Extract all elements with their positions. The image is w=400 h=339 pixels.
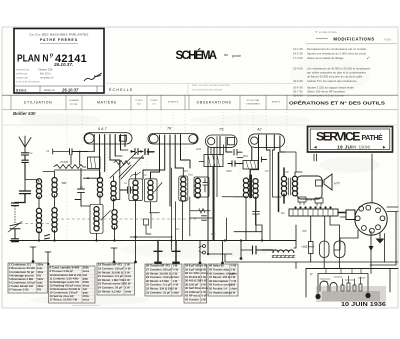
svg-text:►: ► [382,145,387,150]
svg-text:1 W: 1 W [125,278,130,282]
filter choke [262,250,294,253]
diagonal routing under 6A7 [110,152,143,179]
IF2 transformer [249,175,252,199]
svg-text:6 A 7: 6 A 7 [98,127,107,131]
svg-text:PATHÉ FRÈRES: PATHÉ FRÈRES [40,37,78,42]
svg-text:½ W: ½ W [172,283,178,287]
svg-text:calqué par: calqué par [16,75,28,79]
svg-text:2 W: 2 W [125,270,130,274]
svg-text:26.10.37: 26.10.37 [61,88,79,93]
svg-text:bob.: bob. [37,280,43,284]
ground right of socket [379,233,381,238]
socket pins [355,205,385,233]
svg-text:38 400 Ω 3W: 38 400 Ω 3W [185,279,202,283]
svg-text:22 Résist. 1 MΩ ½W: 22 Résist. 1 MΩ ½W [98,278,124,282]
L3 lower coil [94,207,99,231]
svg-text:2 W: 2 W [172,271,177,275]
svg-text:24-5-36: 24-5-36 [293,79,303,83]
svg-text:36 0,1 400v: 36 0,1 400v [185,271,200,275]
small zigzag r3 [114,161,130,169]
svg-text:10 Résistance 300 Ω 1W: 10 Résistance 300 Ω 1W [50,273,82,277]
faint dash under T2 [72,305,100,307]
L3 top link [84,172,101,178]
svg-text:50 Fusible 1 A: 50 Fusible 1 A [209,287,227,291]
svg-text:Cadran P.O. les valeurs des ré: Cadran P.O. les valeurs des résistances [307,79,357,83]
L1 stubs [38,196,40,241]
title block box [14,29,104,94]
svg-text:POIDS: POIDS [136,100,143,102]
speaker frame [297,176,322,199]
svg-text:75: 75 [219,127,224,132]
tube 78 envelope [148,134,198,145]
svg-text:0,05: 0,05 [196,147,202,151]
grid resistor box 75 [204,155,223,167]
svg-text:7 Cadre blindé GO: 7 Cadre blindé GO [9,284,34,288]
IF1 coil A [133,180,138,200]
grid box right [88,157,101,169]
svg-text:10 JUIN 1936: 10 JUIN 1936 [341,302,386,308]
svg-text:0,1: 0,1 [29,151,33,155]
svg-text:34 8 μF 500v: 34 8 μF 500v [185,264,202,268]
tube 42 [249,134,285,148]
75 pin wires [208,137,226,255]
svg-text:PATHÉ: PATHÉ [362,133,384,142]
svg-text:de liaison 50.000 est porté au: de liaison 50.000 est porté au circuit d… [307,75,363,79]
osc coil A [181,177,186,201]
socket bottom wire + arrow [370,231,372,247]
main header band [2,94,398,96]
svg-text:17-3-36: 17-3-36 [293,56,303,60]
svg-text:NOMBRE: NOMBRE [69,100,79,102]
svg-text:2 W: 2 W [230,283,235,287]
svg-text:8 Trimmer 3-30: 8 Trimmer 3-30 [9,288,29,292]
svg-text:mica: mica [83,298,90,302]
small socket pads [298,197,306,205]
svg-text:500v: 500v [37,263,44,267]
can feeds [324,216,339,269]
svg-text:40 Self filtre: 40 Self filtre [185,286,201,290]
sector wires left [295,262,297,269]
tube socket circle [355,203,387,235]
svg-text:1 W: 1 W [172,279,177,283]
svg-text:45 Transfo alim.: 45 Transfo alim. [209,268,230,272]
socket left-bottom routing [334,230,358,250]
coil L2 upper [52,178,57,198]
svg-text:½ W: ½ W [201,294,207,298]
socket right wires [370,207,398,265]
svg-text:par app.: par app. [70,103,78,106]
rectifier can 1 [320,241,330,258]
parts table T3 [97,263,135,295]
svg-text:POIDS: POIDS [151,100,158,102]
svg-text:1 W: 1 W [230,290,235,294]
grid resistor box 42 [243,161,258,170]
svg-text:1 W: 1 W [125,263,130,267]
svg-text:450v: 450v [37,270,44,274]
svg-text:Boîtier 530: Boîtier 530 [13,111,36,116]
svg-text:31 Condens. 0,1 μF: 31 Condens. 0,1 μF [146,283,171,287]
svg-text:2MΩ: 2MΩ [225,169,232,173]
voice coil [316,180,323,186]
smudge [316,286,386,302]
wire antenna to L1 [25,180,39,183]
svg-text:17 Résist. 10.000 ½W: 17 Résist. 10.000 ½W [50,298,78,302]
right resistor vertical [309,242,314,254]
L3 shield box lower [90,204,103,233]
svg-text:H P: H P [334,182,340,186]
twin trimmer caps [120,187,135,193]
vertical x119.8 [119,168,121,200]
svg-text:TR: TR [285,170,289,174]
cathode cap 42 [259,157,267,162]
svg-text:net: net [152,103,155,106]
svg-text:15 Condensat. 100 pF: 15 Condensat. 100 pF [50,291,79,295]
svg-text:½ W: ½ W [125,267,131,271]
svg-text:12-1-36: 12-1-36 [293,47,303,51]
svg-text:24 Condens. 50 pF: 24 Condens. 50 pF [98,286,123,290]
svg-text:350: 350 [302,229,307,233]
svg-text:sont données à titre indicatif: sont données à titre indicatif [192,89,222,92]
svg-text:4 Bobinage accord: 4 Bobinage accord [9,273,34,277]
svg-text:SYMBOLE: SYMBOLE [168,102,179,104]
svg-text:MF2: MF2 [243,154,249,158]
tube 6A7 envelope [84,133,132,144]
cap x81 [75,169,85,207]
svg-text:dessiné par: dessiné par [16,68,30,72]
heater resistors [341,283,362,291]
svg-text:25.000: 25.000 [59,160,68,164]
svg-text:Nota : les cotes du plan d'ens: Nota : les cotes du plan d'ensemble [192,84,230,87]
aging blotches [20,57,380,305]
winding humps [320,281,337,291]
parts table T6 [208,264,238,296]
cap before choke [253,246,263,254]
svg-text:26.10.37.: 26.10.37. [53,62,73,67]
IF2 stubs [246,170,262,241]
IF1 trimmer arrow [155,183,162,192]
svg-text:21 Condens. 0,1 μF: 21 Condens. 0,1 μF [98,274,123,278]
svg-text:Dates le: Dates le [44,88,55,92]
svg-text:2 W: 2 W [201,297,206,301]
RF line y151.5 [53,149,69,154]
small faint rows [16,68,54,84]
svg-text:25 Résist. 0,5 MΩ: 25 Résist. 0,5 MΩ [98,289,121,293]
svg-text:39 0,05 μF: 39 0,05 μF [185,282,199,286]
dotted drop [14,206,16,223]
svg-text:1 Condensat. 0,1: 1 Condensat. 0,1 [9,263,31,267]
line y170 [54,169,100,171]
resistor zigzag [54,165,86,169]
L4 stubs [114,176,115,241]
svg-text:bob.: bob. [37,266,43,270]
svg-text:2 W: 2 W [201,282,206,286]
parts table T2 [49,266,96,303]
svg-text:SCHÉMA: SCHÉMA [176,49,218,62]
svg-text:UTILISATION: UTILISATION [24,101,53,105]
svg-text:mica: mica [83,269,90,273]
svg-text:chim: chim [230,271,237,275]
svg-text:41 0,002 μF: 41 0,002 μF [185,290,200,294]
svg-text:19 Condens. 100 pF: 19 Condens. 100 pF [98,267,124,271]
78 pins [143,135,190,207]
svg-text:33 Condens. 25 μF: 33 Condens. 25 μF [146,290,171,294]
osc trimmer [203,179,207,193]
svg-text:chim: chim [125,274,132,278]
power block top rails [306,268,398,270]
svg-text:Remplacement du condensateur p: Remplacement du condensateur par un modè… [307,47,367,51]
svg-text:21-4-36: 21-4-36 [293,67,303,71]
misc value labels [46,147,307,236]
svg-text:+HS: +HS [301,245,308,249]
small zigzag under 78 [130,172,140,177]
IF1 shield box A [129,179,143,201]
oscillator shield box 2 [194,177,209,197]
svg-text:N° et date d'ordre: N° et date d'ordre [315,30,337,34]
svg-text:8 Cond. variable 3×490: 8 Cond. variable 3×490 [50,266,80,270]
coil L1 upper [36,179,41,199]
small cap to left [12,203,26,206]
mast continues down [24,180,26,191]
svg-text:C1: C1 [46,149,50,153]
svg-text:250v: 250v [83,280,90,284]
coil L2 lower [52,208,57,232]
antenna series capacitor 1 [22,153,29,160]
svg-text:chim: chim [230,287,237,291]
IF1 coil B [148,180,153,200]
svg-text:14 Résistance 50.000 Ω: 14 Résistance 50.000 Ω [50,287,81,291]
svg-text:30 Résist. 0,5 MΩ: 30 Résist. 0,5 MΩ [146,279,169,283]
svg-text:500v: 500v [37,277,44,281]
svg-text:13 Padding 425 pF mica: 13 Padding 425 pF mica [50,283,82,287]
svg-text:½ W: ½ W [201,279,207,283]
svg-text:OBSERVATIONS: OBSERVATIONS [197,101,232,105]
faint form row line [2,124,398,126]
svg-text:SÉRIE: SÉRIE [16,87,27,92]
misc short wires for density [62,152,296,237]
svg-text:43 Transfo: 43 Transfo [185,297,199,301]
svg-text:3 Condensat. 50 pF: 3 Condensat. 50 pF [9,270,35,274]
svg-text:RENVOI: RENVOI [272,102,281,104]
coil L4 lower [112,210,117,230]
osc coil B [195,178,200,198]
svg-text:42: 42 [257,127,262,132]
svg-text:450v: 450v [37,284,44,288]
variable cap with arrow [10,223,20,238]
svg-text:44 Valve 80: 44 Valve 80 [209,264,224,268]
svg-text:6m: 6m [281,211,286,215]
svg-text:chim: chim [125,289,132,293]
terminal strip [289,209,338,216]
svg-text:5 Résistance 2 MΩ: 5 Résistance 2 MΩ [9,277,34,281]
bus junction dots [38,236,263,255]
svg-text:MF1: MF1 [183,169,189,173]
svg-text:0,1: 0,1 [143,173,147,177]
svg-text:Ajouter une résistance de 2.00: Ajouter une résistance de 2.000 ohms au … [307,52,366,56]
svg-text:23 Potentiomètre 500: 23 Potentiomètre 500 [98,282,126,286]
svg-text:chim: chim [201,271,208,275]
svg-text:Bte 125 s: Bte 125 s [40,71,52,75]
svg-text:27 Condens. 250 pF: 27 Condens. 250 pF [146,268,172,272]
svg-text:32 Résist. 350 Ω 2W: 32 Résist. 350 Ω 2W [146,287,172,291]
svg-text:37 25.000 Ω: 37 25.000 Ω [185,275,201,279]
svg-text:N° DU PLAN: N° DU PLAN [247,99,260,102]
svg-text:brut: brut [137,103,141,106]
L4 trimmer arrow [101,211,111,221]
strip to socket wire [338,212,346,214]
svg-text:0,5: 0,5 [265,169,269,173]
svg-text:PLAN N: PLAN N [17,54,49,65]
svg-text:SERVICE: SERVICE [316,130,360,144]
drops to tables [33,237,241,265]
svg-text:1 W: 1 W [230,275,235,279]
coil L4 upper [111,181,116,201]
svg-text:19 JUIN 1936: 19 JUIN 1936 [337,144,370,150]
svg-text:chim: chim [201,286,208,290]
svg-text:18 Transfo MF 472: 18 Transfo MF 472 [98,263,122,267]
choke feed vertical [294,225,296,248]
bus tilted cap [45,235,50,240]
IF1 bottom network [150,213,160,229]
svg-text:mica: mica [83,283,90,287]
svg-text:0,1: 0,1 [176,227,180,231]
svg-text:6 Condensat. 150 pF: 6 Condensat. 150 pF [9,280,36,284]
svg-text:◄: ◄ [313,145,318,150]
svg-text:D'ENSEMBLE: D'ENSEMBLE [246,104,260,106]
long verticals to AVC [172,168,176,250]
svg-text:250v: 250v [83,266,90,270]
lower rail [208,254,398,262]
main bus [10,240,296,242]
svg-text:vérifié par: vérifié par [16,71,28,75]
svg-text:½ W: ½ W [201,264,207,268]
caps between tubes [132,149,143,155]
main bus left end [10,240,26,242]
osc bias network [190,197,212,236]
svg-text:Chassis 530: Chassis 530 [38,68,53,72]
big mast capacitor [20,191,31,203]
svg-text:51 Voyant cadran: 51 Voyant cadran [209,290,232,294]
svg-text:2 W: 2 W [172,287,177,291]
svg-text:11 Condens. 0,05 400v: 11 Condens. 0,05 400v [50,276,80,280]
svg-text:16 Self de choc HF: 16 Self de choc HF [50,294,75,298]
drop from cap [71,152,80,166]
parts table T5 [184,264,208,303]
svg-text:250v: 250v [83,294,90,298]
line y171.5 [43,171,55,173]
svg-text:✓: ✓ [366,56,370,61]
tube 75 [206,135,238,147]
svg-text:9 Trimmer 3-30 pF: 9 Trimmer 3-30 pF [50,269,74,273]
bus end cap [12,239,19,242]
svg-text:Osc: Osc [188,173,194,177]
signature scribble [84,73,102,81]
parts table T1 [8,263,48,293]
antenna [19,136,31,152]
speaker cone [324,174,332,190]
svg-text:2 W: 2 W [125,286,130,290]
transformer box outline [318,274,368,300]
svg-text:42 HP excit.: 42 HP excit. [185,294,201,298]
cap on RF line [70,149,89,155]
42 pin wires [252,135,285,170]
svg-text:chim: chim [172,290,179,294]
svg-text:½ W: ½ W [125,282,131,286]
svg-text:12 Bobinage oscill. PO: 12 Bobinage oscill. PO [50,280,81,284]
transformer stubs / thick feed [279,153,285,212]
L3 stubs [97,195,101,241]
oscillator shield box 1 [179,176,188,201]
svg-text:14-2-36: 14-2-36 [293,52,303,56]
svg-text:47 Résist. 150 Ω: 47 Résist. 150 Ω [209,275,231,279]
antenna series capacitor 2 [22,160,29,179]
electrolytic caps below bus [154,241,162,262]
svg-text:du: du [224,53,228,57]
svg-text:chim: chim [172,275,179,279]
svg-text:20 Résist. 25.000 Ω: 20 Résist. 25.000 Ω [98,270,124,274]
svg-text:poste: poste [232,54,241,58]
svg-text:28 Résist. 50.000 Ω: 28 Résist. 50.000 Ω [146,271,172,275]
svg-text:35 8 μF 500v: 35 8 μF 500v [185,267,202,271]
corner blobs [315,294,320,299]
svg-text:ÉCHELLE: ÉCHELLE [109,87,134,92]
rectifier can 2 [334,241,345,258]
faint band lines right of box [104,82,296,84]
faint form column rules [67,110,287,238]
svg-text:remplace le: remplace le [40,75,54,79]
svg-text:vu le chef du bureau: vu le chef du bureau [16,79,40,83]
svg-text:26 Transfo MF 472: 26 Transfo MF 472 [146,264,170,268]
svg-text:1 W: 1 W [201,290,206,294]
svg-text:8μF: 8μF [211,232,216,236]
svg-text:MATIÈRE: MATIÈRE [97,100,117,105]
svg-text:29 Condens. 0,02 μF: 29 Condens. 0,02 μF [146,275,173,279]
svg-text:Valeur de la cellule de filtra: Valeur de la cellule de filtrage [307,56,344,60]
svg-text:½ W: ½ W [230,264,236,268]
svg-text:48 Interrupteur: 48 Interrupteur [209,279,229,283]
coil L3 upper [97,178,102,198]
svg-text:2 Résistance 25.000: 2 Résistance 25.000 [9,266,35,270]
socket plug box [346,210,355,220]
osc stubs [181,168,184,241]
svg-text:1 W: 1 W [172,264,177,268]
svg-text:MODIFICATIONS: MODIFICATIONS [333,37,374,42]
coil L1 lower [36,208,41,232]
svg-text:2 W: 2 W [230,268,235,272]
svg-text:½ W: ½ W [230,279,236,283]
gang dashed line [20,219,196,224]
driver transformer [281,176,297,196]
wire under stamp [371,154,373,203]
svg-text:1 W: 1 W [201,275,206,279]
svg-text:2 W: 2 W [201,267,206,271]
coupling cap 42 [228,161,243,167]
IF1 stubs [136,172,151,237]
svg-text:½ W: ½ W [172,268,178,272]
svg-text:VISA: VISA [384,38,391,42]
parts table T4 [145,264,182,296]
6A7 pins [94,135,125,179]
IF1 shield box B [144,179,157,202]
L2 stubs [54,172,56,241]
